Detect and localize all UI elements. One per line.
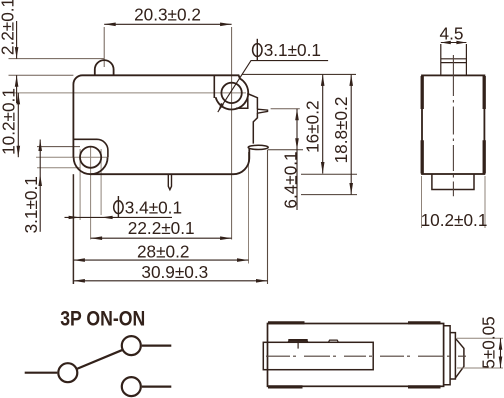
side body [422, 75, 484, 174]
side thick edge bars [422, 76, 484, 174]
side centerline dash-dot [452, 55, 454, 196]
pin bottom middle [168, 174, 171, 189]
dim 6.4 line with underline [296, 109, 298, 210]
ref line terminal1 for 6.4 [271, 108, 300, 110]
ext line hole tangent left vertical [79, 149, 81, 220]
bottom body outline [268, 324, 444, 387]
lever plate [263, 342, 373, 369]
boss arc around top-right hole [216, 79, 249, 110]
svg-text:22.2±0.1: 22.2±0.1 [128, 218, 195, 238]
side 10.2 ext lines [422, 176, 486, 228]
dim 22.2 line [91, 237, 232, 239]
centerline hole bottom-left horizontal [36, 156, 107, 158]
svg-text:3.4±0.1: 3.4±0.1 [125, 198, 182, 218]
bump 1 on lever [288, 340, 308, 342]
lobe semicircle bottom-left [74, 157, 108, 174]
bottom centerline dash-dot [266, 355, 466, 357]
svg-text:30.9±0.3: 30.9±0.3 [141, 262, 208, 282]
dim 10.2 line [17, 93, 19, 157]
ext line body right edge vertical [248, 152, 250, 264]
svg-text:3P ON-ON: 3P ON-ON [60, 308, 145, 331]
svg-text:3.1±0.1: 3.1±0.1 [21, 176, 41, 233]
plunger pointed tip [455, 338, 464, 378]
svg-text:4.5: 4.5 [440, 24, 464, 44]
left lead wire [25, 372, 58, 374]
side bottom tab [432, 174, 474, 190]
top contact circle [122, 336, 141, 355]
body bottom right with corner [91, 149, 250, 175]
label phi3.4 [114, 196, 123, 218]
side plunger [441, 44, 467, 75]
terminal 2 lug cap [248, 145, 268, 149]
svg-text:3.1±0.1: 3.1±0.1 [264, 40, 321, 60]
button dome [95, 60, 114, 75]
right cap step B [450, 333, 455, 379]
ext line pin tip right [301, 194, 357, 196]
svg-text:5±0.05: 5±0.05 [479, 316, 499, 368]
ref line button top [9, 58, 105, 60]
svg-text:28±0.2: 28±0.2 [137, 241, 189, 261]
ext line terminal tip vertical [267, 150, 269, 284]
dim 16 line [322, 74, 324, 173]
right cap step A [444, 326, 451, 385]
centerline button vertical [103, 27, 105, 67]
centerline hole top-right vertical [231, 27, 233, 240]
svg-text:10.2±0.1: 10.2±0.1 [421, 210, 488, 230]
lever wire [77, 350, 123, 369]
ref line body top left ext [9, 74, 74, 76]
svg-text:10.2±0.1: 10.2±0.1 [0, 88, 19, 155]
terminal 1 tab [257, 109, 267, 113]
label phi3.1 [253, 39, 262, 61]
dim 5 ext lines [457, 338, 503, 368]
bottom contact circle [122, 377, 141, 396]
right profile with terminals [247, 94, 257, 144]
ext line body bottom right [301, 173, 357, 175]
dim 20.3 line [104, 23, 231, 25]
bump 2 on lever [328, 340, 338, 342]
bottom lead wire [142, 386, 172, 388]
svg-text:16±0.2: 16±0.2 [302, 100, 322, 152]
bottom thick bars [268, 323, 441, 387]
common terminal circle [58, 363, 77, 382]
ref line hole btm-left bottom tangent [37, 167, 80, 169]
inner step below boss [236, 97, 248, 109]
boss inner corner vertical [213, 75, 215, 98]
centerline hole top-right horizontal [10, 92, 246, 94]
svg-text:18.8±0.2: 18.8±0.2 [331, 97, 351, 164]
hole bottom-left [80, 147, 101, 168]
lobe inner corner [73, 139, 108, 157]
hole top-right [221, 83, 241, 103]
ext line body left edge vertical [72, 174, 74, 284]
svg-text:2.2±0.1: 2.2±0.1 [0, 0, 17, 55]
dim 28 line [73, 259, 248, 261]
ref line hole btm-left top tangent [37, 146, 80, 148]
svg-text:6.4±0.1: 6.4±0.1 [280, 151, 300, 208]
ext line terminal bottom for 6.4 [268, 149, 304, 151]
top lead wire [142, 345, 172, 347]
svg-text:20.3±0.2: 20.3±0.2 [134, 5, 201, 25]
ext line top for 16/18.8 [243, 73, 357, 75]
dim 3.1 line [39, 140, 41, 232]
dim 30.9 line [73, 280, 267, 282]
phi3.1 underline and leader [218, 61, 328, 113]
ext line hole tangent right vertical [100, 149, 102, 215]
dim 18.8 line [350, 74, 352, 194]
dim 5 line [500, 338, 502, 368]
dim 2.2 legs [16, 21, 18, 103]
body outline [73, 75, 240, 157]
dim phi3.4 leader [65, 216, 173, 218]
ext line hole bottom-left center vertical [90, 146, 92, 240]
dim 4.5 [441, 42, 467, 44]
